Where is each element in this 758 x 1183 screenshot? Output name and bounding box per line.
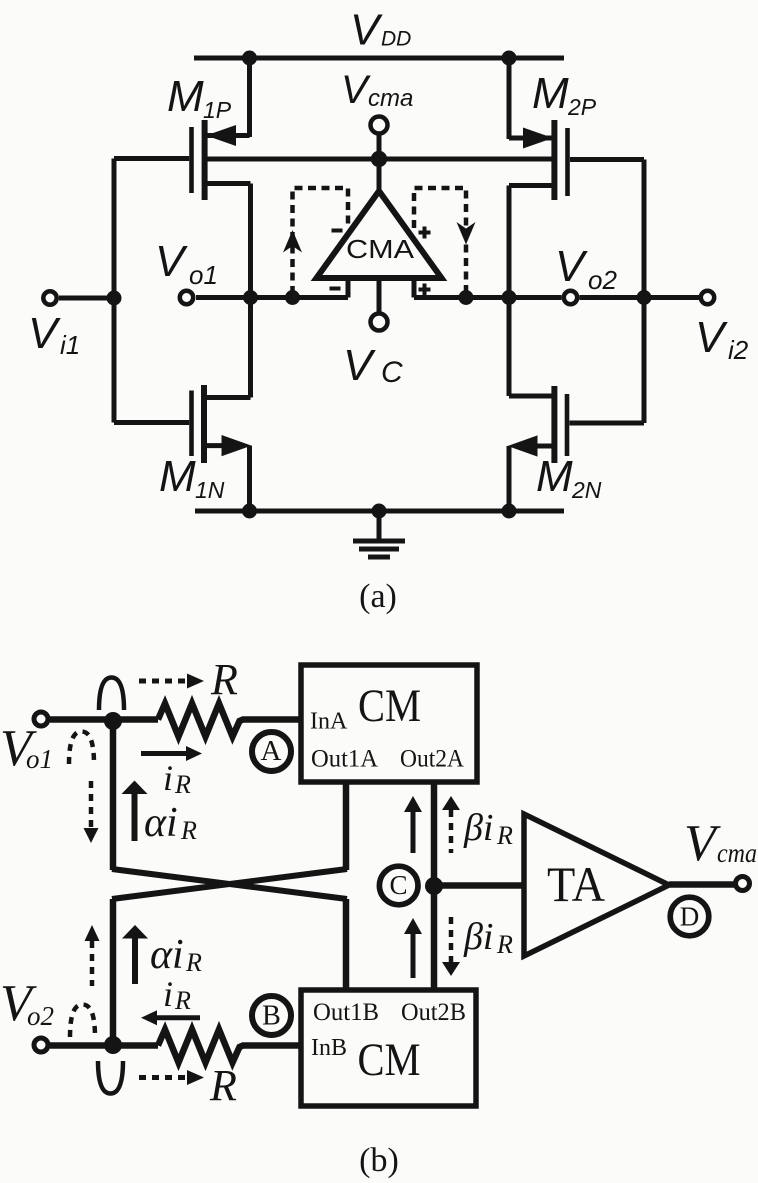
wire C to TA: [434, 882, 524, 889]
node left loop up-arrow: [283, 230, 302, 253]
label alphaiR-B: [150, 932, 202, 978]
svg-text:R: R: [496, 821, 513, 850]
label betaiR-bottom: [463, 916, 513, 959]
wire Out1A vertical: [343, 782, 350, 870]
node C junction: [425, 877, 443, 895]
node C: [379, 866, 418, 905]
wire apex stub: [377, 159, 382, 195]
node B: [252, 996, 291, 1035]
svg-text:M: M: [532, 69, 569, 118]
wire left node line: [196, 295, 348, 300]
svg-text:V: V: [350, 6, 383, 55]
svg-text:R: R: [180, 816, 197, 845]
svg-text:1N: 1N: [195, 477, 225, 503]
svg-text:B: B: [262, 1001, 281, 1032]
op-amp TA: [524, 814, 669, 956]
svg-text:αi: αi: [144, 800, 178, 846]
node solid cup below Vo2 dot: [98, 1061, 123, 1094]
svg-text:2P: 2P: [567, 94, 597, 120]
wire ground rail: [195, 509, 564, 514]
svg-text:(a): (a): [359, 578, 397, 615]
svg-text:αi: αi: [150, 932, 184, 978]
svg-text:i: i: [163, 758, 173, 798]
wire dashed left feedback loop: [293, 188, 349, 294]
wire solid arrow iR-B: [141, 1010, 200, 1025]
terminal Vi2: [580, 290, 749, 365]
svg-text:βi: βi: [463, 807, 493, 849]
svg-text:Out2B: Out2B: [401, 999, 466, 1026]
svg-text:o2: o2: [27, 1001, 54, 1031]
wire left drain vertical: [248, 184, 253, 398]
wire lower-left bus vertical: [110, 899, 117, 1045]
transistor M2N: [508, 386, 645, 511]
svg-text:cma: cma: [368, 85, 413, 112]
svg-text:Out1A: Out1A: [311, 746, 378, 773]
terminal Vo1: [155, 237, 218, 304]
wire dashed down-arrow alphaiR-A: [84, 781, 99, 843]
svg-text:Out1B: Out1B: [313, 999, 379, 1026]
transistor M1P: [114, 58, 251, 200]
wire dashed arrow R-B: [139, 1070, 204, 1085]
terminal Vcma-b: [669, 815, 757, 891]
transistor M2P: [509, 58, 644, 200]
node solid up-arrow betaiR-top: [404, 796, 422, 853]
wire solid arrow iR-A: [141, 746, 202, 761]
svg-text:o1: o1: [26, 744, 53, 774]
terminal Vo1-b: [0, 712, 158, 777]
resistor R-A: [158, 704, 301, 737]
node solid up-arrow alphaiR-A: [122, 781, 148, 842]
node solid up-arrow betaiR-bottom: [404, 918, 422, 978]
svg-text:M: M: [536, 452, 573, 501]
node right loop down-arrow: [457, 222, 476, 245]
svg-text:M: M: [167, 72, 204, 121]
svg-text:R: R: [174, 770, 191, 799]
svg-text:R: R: [185, 948, 202, 977]
svg-text:Out2A: Out2A: [400, 746, 464, 773]
label iR-A: [163, 758, 191, 799]
node left loop junction: [285, 290, 300, 305]
svg-text:(b): (b): [359, 1142, 399, 1179]
svg-text:o1: o1: [189, 260, 218, 290]
svg-text:InA: InA: [310, 709, 348, 735]
node solid up-arrow alphaiR-B: [122, 925, 148, 984]
svg-text:CMA: CMA: [346, 234, 415, 264]
svg-text:A: A: [261, 735, 282, 767]
svg-text:R: R: [210, 655, 238, 704]
wire right node line: [414, 295, 562, 300]
transistor M1N: [114, 385, 252, 511]
svg-text:C: C: [389, 870, 407, 900]
node VDD-right junction: [502, 51, 517, 66]
svg-text:M: M: [159, 452, 196, 501]
svg-text:o2: o2: [588, 265, 617, 295]
node right loop junction: [459, 290, 474, 305]
svg-text:CM: CM: [358, 680, 421, 732]
svg-text:CM: CM: [358, 1034, 421, 1086]
node rail-right junction: [502, 504, 517, 519]
svg-text:i: i: [163, 974, 173, 1014]
wire Out2 vertical: [431, 782, 438, 990]
svg-text:i1: i1: [60, 330, 80, 360]
wire Out1B vertical: [343, 899, 350, 990]
wire dashed arrow R-A: [139, 674, 204, 689]
node dashed hump below Vo1: [69, 732, 94, 765]
label VDD: [350, 6, 411, 55]
svg-text:V: V: [684, 815, 721, 872]
node rail-center junction: [372, 504, 387, 519]
svg-text:C: C: [381, 356, 403, 389]
node Vo2 drain junction: [502, 290, 517, 305]
svg-text:R: R: [174, 986, 191, 1015]
svg-text:V: V: [28, 309, 61, 358]
node A: [252, 732, 291, 771]
wire Vcma mid line: [207, 157, 553, 162]
svg-text:V: V: [343, 341, 376, 390]
terminal Vo2-b: [0, 975, 158, 1054]
node solid hump above Vo1 dot: [99, 678, 124, 711]
node rail-left junction: [242, 504, 257, 519]
block CM-B: [301, 990, 476, 1106]
wire right drain vertical: [507, 186, 512, 397]
svg-text:R: R: [496, 930, 513, 959]
svg-text:V: V: [155, 237, 188, 286]
wire right gate bus: [642, 160, 647, 424]
svg-text:InB: InB: [311, 1035, 347, 1061]
terminal Vi1: [28, 291, 122, 361]
label alphaiR-A: [144, 800, 197, 846]
wire dashed right feedback loop: [414, 188, 466, 294]
node Vo1 drain junction: [243, 290, 258, 305]
wire dashed down-arrow betaiR-bottom: [442, 917, 460, 976]
label betaiR-top: [463, 807, 513, 850]
wire Vo1 bus vertical: [110, 721, 117, 870]
node VC terminal: [343, 278, 403, 390]
node VDD-left junction: [242, 51, 257, 66]
op-amp CMA: [317, 191, 442, 298]
svg-text:R: R: [209, 1061, 237, 1110]
wire dashed up-arrow alphaiR-B: [85, 925, 100, 986]
svg-text:1P: 1P: [203, 97, 232, 123]
svg-text:cma: cma: [717, 838, 757, 868]
wire cross diagonal 2: [112, 869, 347, 899]
node dashed hump above Vo2: [70, 1005, 95, 1038]
block CM-A: [301, 665, 477, 782]
svg-text:DD: DD: [381, 28, 411, 51]
terminal Vo2: [555, 242, 617, 304]
svg-text:V: V: [695, 313, 728, 362]
node Vcma terminal: [341, 68, 413, 167]
resistor R-B: [158, 1030, 301, 1063]
svg-text:βi: βi: [463, 916, 493, 958]
wire cross diagonal 1: [112, 869, 347, 899]
label iR-B: [163, 974, 191, 1015]
ground: [353, 511, 405, 557]
svg-text:V: V: [341, 68, 371, 112]
node D: [670, 897, 709, 936]
wire VDD rail: [194, 56, 564, 61]
svg-text:i2: i2: [728, 335, 749, 365]
svg-text:V: V: [555, 242, 588, 291]
svg-text:2N: 2N: [571, 477, 602, 503]
wire dashed up-arrow betaiR-top: [442, 796, 460, 853]
svg-text:D: D: [680, 902, 700, 932]
wire left gate bus: [112, 159, 117, 423]
svg-text:TA: TA: [547, 856, 605, 912]
